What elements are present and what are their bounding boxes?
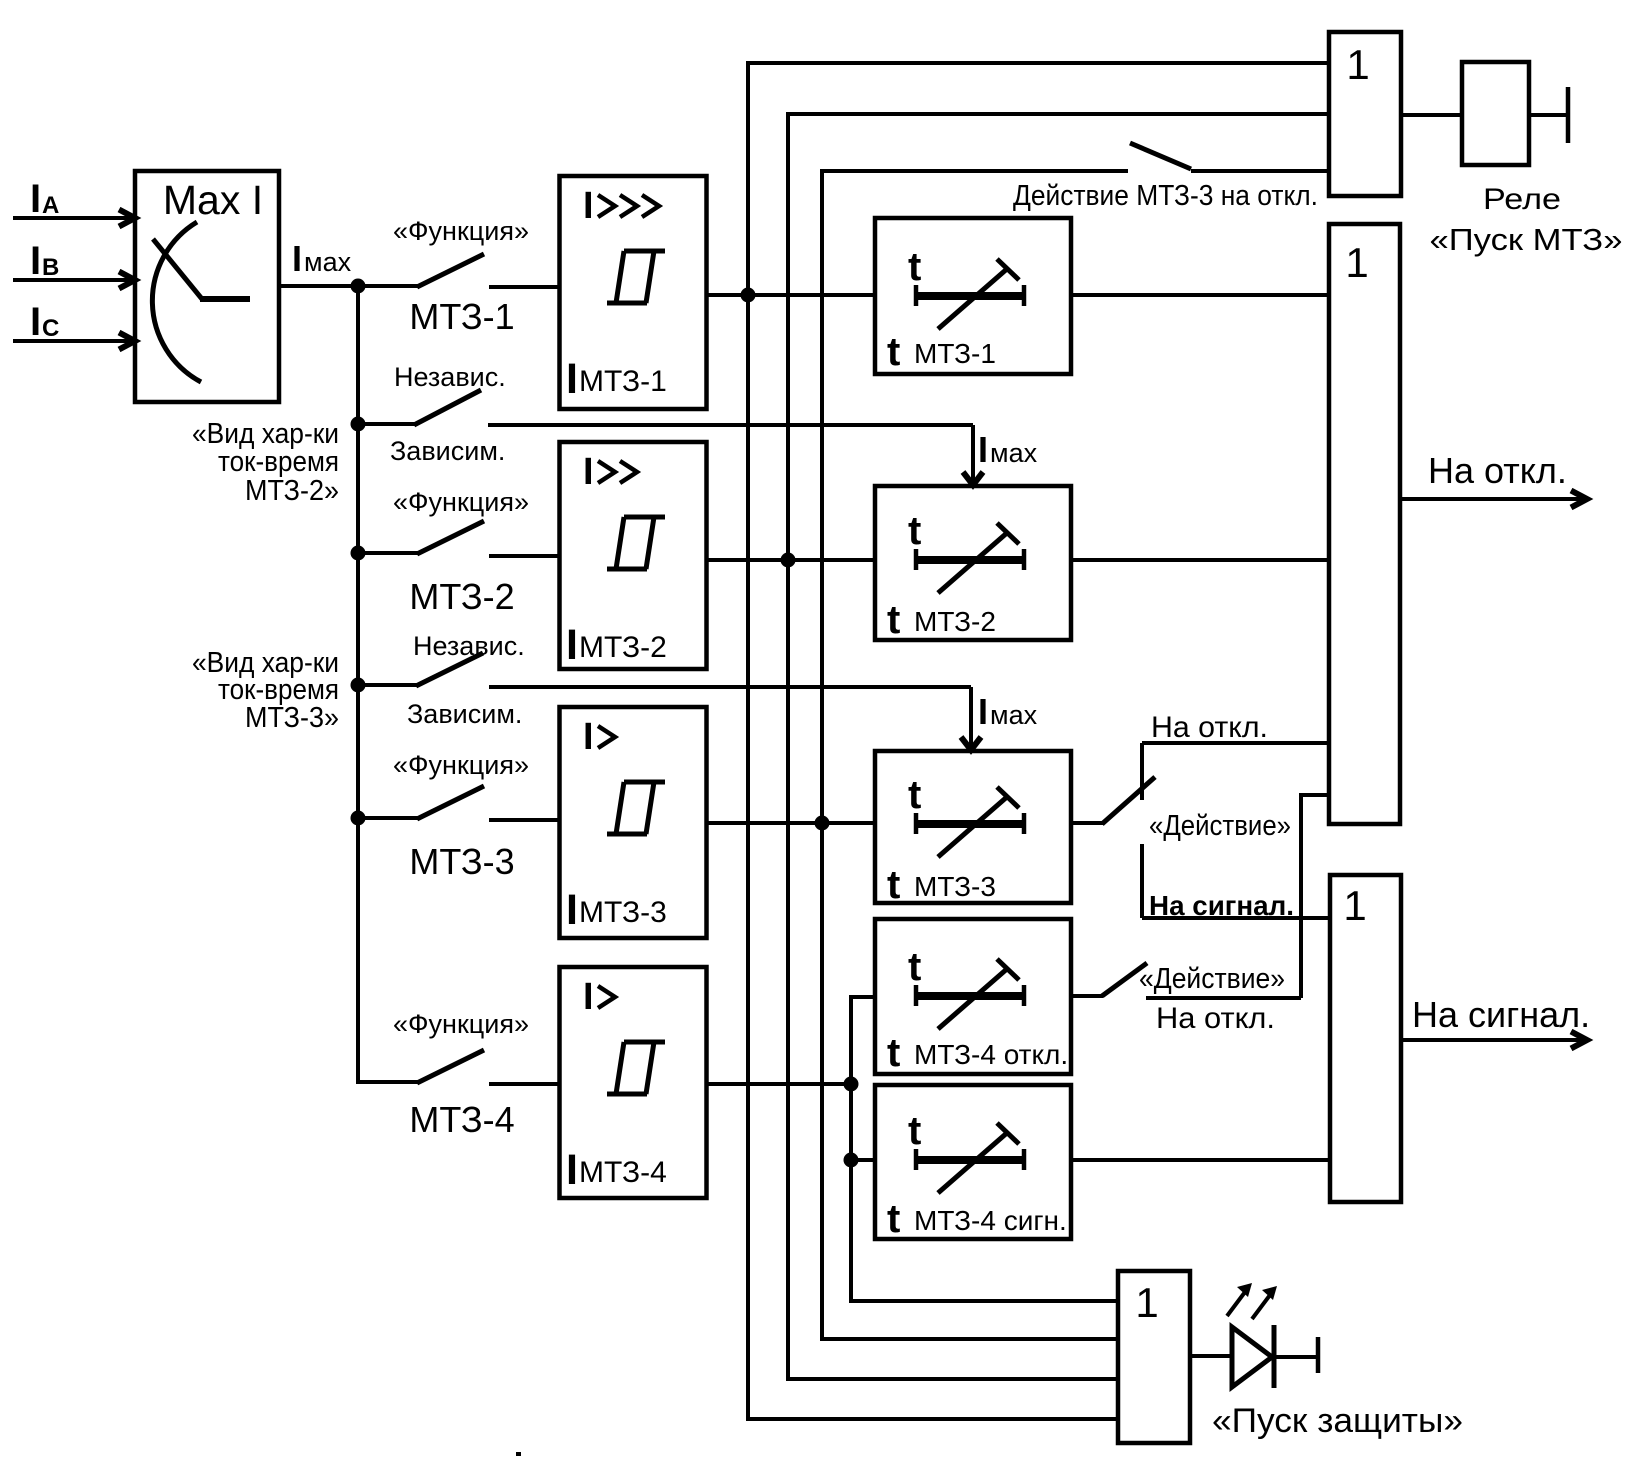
label Imax at t MTZ-3 input	[978, 691, 1038, 732]
wire net MTZ-3 start: comparator A3 to switch and OR4	[822, 171, 1128, 1339]
label Imax	[292, 238, 352, 279]
output arrow На сигнал.	[1401, 1032, 1587, 1049]
svg-text:I: I	[583, 976, 594, 1018]
svg-text:I: I	[978, 429, 988, 470]
svg-text:«Пуск защиты»: «Пуск защиты»	[1212, 1402, 1463, 1440]
svg-text:t: t	[908, 945, 921, 989]
speck bottom	[516, 1452, 521, 1456]
svg-text:мах: мах	[304, 247, 352, 277]
svg-text:I: I	[30, 239, 41, 283]
wire relay to terminal	[1529, 113, 1568, 117]
node N8 MTZ-3 row	[815, 816, 830, 831]
svg-text:На откл.: На откл.	[1151, 711, 1268, 744]
svg-text:I: I	[583, 716, 594, 758]
svg-text:МТЗ-3: МТЗ-3	[914, 871, 996, 902]
svg-text:Действие МТЗ-3 на откл.: Действие МТЗ-3 на откл.	[1013, 180, 1318, 212]
svg-text:I: I	[566, 355, 578, 403]
switch SA1 «Функция» МТЗ-1	[358, 254, 560, 287]
svg-text:t: t	[908, 245, 921, 289]
svg-text:«Функция»: «Функция»	[393, 487, 529, 517]
wire net MTZ-1 start: comparator A1 to OR1 and OR4	[748, 63, 1329, 1419]
label «Вид хар-ки ток-время МТЗ-2»	[192, 418, 339, 507]
node N2 bus char-switch MTZ-2	[351, 417, 366, 432]
wire MTZ-2 output row	[706, 558, 875, 562]
wire t MTZ-4 otkl to action switch	[1070, 994, 1103, 998]
node N10 MTZ-4 to t sign	[844, 1153, 859, 1168]
svg-text:Max I: Max I	[163, 177, 263, 223]
svg-text:I: I	[30, 177, 41, 221]
switch SA6 «Действие» МТЗ-3 (откл./сигнал.)	[1102, 743, 1155, 918]
switch SA7 «Действие» МТЗ-4	[1102, 963, 1301, 998]
svg-text:На сигнал.: На сигнал.	[1412, 994, 1590, 1035]
svg-text:t: t	[887, 1197, 900, 1241]
timer DT5 t МТЗ-4 сигн.	[875, 1085, 1071, 1241]
node N5 bus function MTZ-3	[351, 811, 366, 826]
svg-text:МТЗ-1: МТЗ-1	[579, 365, 667, 398]
wire t MTZ-2 to OR2	[1071, 558, 1329, 562]
wire t MTZ-1 to OR2	[1070, 293, 1329, 297]
label Реле «Пуск МТЗ»	[1430, 183, 1623, 257]
svg-text:На откл.: На откл.	[1428, 450, 1567, 491]
svg-text:МТЗ-3»: МТЗ-3»	[245, 702, 339, 734]
wire t MTZ-4 sign to OR3	[1070, 1158, 1330, 1162]
svg-text:На сигнал.: На сигнал.	[1149, 890, 1294, 921]
OR gate D4 (Пуск защиты)	[1118, 1271, 1190, 1443]
svg-text:C: C	[42, 315, 59, 342]
timer DT2 t МТЗ-2	[875, 486, 1071, 642]
svg-text:мах: мах	[990, 438, 1038, 468]
svg-text:«Функция»: «Функция»	[393, 750, 529, 780]
svg-text:t: t	[887, 598, 900, 642]
svg-text:МТЗ-4 откл.: МТЗ-4 откл.	[914, 1039, 1068, 1070]
comparator A4 МТЗ-4 threshold	[560, 967, 707, 1198]
svg-text:«Действие»: «Действие»	[1149, 810, 1291, 842]
switch SB2 «Вид хар-ки ток-время МТЗ-3»	[358, 653, 981, 750]
OR gate D2 (На откл.)	[1329, 224, 1400, 824]
wire net MTZ-4 start: to t MTZ-4 boxes and OR4	[851, 997, 1118, 1301]
input IA arrow	[13, 210, 135, 227]
wire На сигнал. from SA6 to OR3	[1142, 916, 1330, 920]
svg-text:I: I	[978, 691, 988, 732]
svg-text:МТЗ-3: МТЗ-3	[579, 896, 667, 929]
timer DT4 t МТЗ-4 откл.	[875, 919, 1071, 1075]
OR gate D3 (На сигнал.)	[1330, 875, 1401, 1202]
svg-text:t: t	[887, 330, 900, 374]
wire vertical Imax bus	[358, 286, 418, 1082]
svg-text:«Действие»: «Действие»	[1139, 963, 1285, 995]
svg-text:МТЗ-1: МТЗ-1	[409, 296, 514, 337]
timer DT3 t МТЗ-3	[875, 751, 1071, 907]
svg-text:t: t	[887, 1031, 900, 1075]
OR gate D1 (Пуск МТЗ)	[1329, 32, 1401, 196]
svg-text:I: I	[292, 238, 302, 279]
svg-text:«Функция»: «Функция»	[393, 1009, 529, 1039]
wire SA7 contact up to OR2	[1301, 795, 1329, 998]
wire MTZ-1 output row	[707, 293, 875, 297]
svg-text:МТЗ-1: МТЗ-1	[914, 338, 996, 369]
node N1 Imax bus top	[351, 279, 366, 294]
wire OR1 to relay	[1401, 113, 1462, 117]
svg-text:t: t	[887, 863, 900, 907]
terminal bar relay	[1566, 87, 1571, 143]
svg-text:t: t	[908, 509, 921, 553]
node N7 MTZ-2 row	[781, 553, 796, 568]
comparator A1 МТЗ-1 threshold	[560, 176, 707, 409]
wire OR4 to LED	[1190, 1354, 1232, 1358]
label Imax at t MTZ-2 input	[978, 429, 1038, 470]
svg-text:Зависим.: Зависим.	[407, 699, 522, 729]
node N4 bus char-switch MTZ-3	[351, 678, 366, 693]
output arrow На откл.	[1400, 491, 1587, 508]
svg-text:МТЗ-2: МТЗ-2	[409, 576, 514, 617]
svg-text:МТЗ-4: МТЗ-4	[579, 1156, 667, 1189]
node N3 bus function MTZ-2	[351, 546, 366, 561]
input IC arrow	[13, 333, 135, 350]
svg-text:МТЗ-4: МТЗ-4	[409, 1099, 514, 1140]
svg-text:мах: мах	[990, 700, 1038, 730]
LED emission arrows	[1227, 1283, 1277, 1319]
svg-text:t: t	[908, 1109, 921, 1153]
wire Imax from Max I to bus	[279, 284, 418, 288]
svg-text:МТЗ-2»: МТЗ-2»	[245, 475, 339, 507]
comparator A2 МТЗ-2 threshold	[560, 442, 707, 669]
svg-text:I: I	[583, 185, 594, 227]
svg-text:1: 1	[1346, 41, 1369, 88]
switch SA4 «Функция» МТЗ-4	[417, 1050, 560, 1084]
block U1 Max I (maximum current selector)	[135, 171, 279, 402]
terminal bar LED	[1316, 1337, 1321, 1373]
svg-text:МТЗ-4 сигн.: МТЗ-4 сигн.	[914, 1205, 1067, 1236]
svg-text:Реле: Реле	[1483, 183, 1561, 216]
svg-text:Независ.: Независ.	[394, 362, 506, 392]
label IC	[30, 300, 59, 344]
switch SA5 Действие МТЗ-3 на откл.	[1130, 143, 1329, 171]
node N9 MTZ-4 row	[844, 1077, 859, 1092]
relay K1 Пуск МТЗ	[1462, 62, 1529, 165]
wire LED to terminal	[1274, 1355, 1318, 1359]
input IB arrow	[13, 272, 135, 289]
svg-text:1: 1	[1345, 239, 1368, 286]
wire На откл. from SA6 to OR2	[1142, 741, 1329, 745]
wire t MTZ-3 to action switch	[1071, 821, 1103, 825]
svg-text:Независ.: Независ.	[413, 631, 525, 661]
wire MTZ-4 output row	[707, 1082, 851, 1086]
svg-text:I: I	[30, 300, 41, 344]
svg-text:1: 1	[1135, 1279, 1158, 1326]
switch SA3 «Функция» МТЗ-3	[358, 786, 560, 820]
svg-text:t: t	[908, 773, 921, 817]
svg-text:МТЗ-2: МТЗ-2	[914, 606, 996, 637]
svg-text:I: I	[566, 886, 578, 934]
svg-text:B: B	[42, 254, 59, 281]
svg-text:Зависим.: Зависим.	[390, 436, 505, 466]
svg-text:МТЗ-3: МТЗ-3	[409, 841, 514, 882]
svg-text:«Пуск МТЗ»: «Пуск МТЗ»	[1430, 222, 1623, 257]
svg-text:МТЗ-2: МТЗ-2	[579, 631, 667, 664]
label «Вид хар-ки ток-время МТЗ-3»	[192, 647, 339, 734]
svg-text:1: 1	[1343, 882, 1366, 929]
label IA	[30, 177, 59, 221]
svg-text:ток-время: ток-время	[218, 446, 339, 478]
node N6 MTZ-1 row	[741, 288, 756, 303]
svg-text:I: I	[566, 621, 578, 669]
svg-text:«Функция»: «Функция»	[393, 216, 529, 246]
label IB	[30, 239, 59, 283]
wire net MTZ-2 start: comparator A2 to OR1 and OR4	[788, 114, 1329, 1379]
timer DT1 t МТЗ-1	[875, 218, 1071, 374]
svg-text:I: I	[566, 1146, 578, 1194]
svg-text:I: I	[583, 451, 594, 493]
svg-text:На откл.: На откл.	[1156, 1002, 1275, 1035]
switch SB1 «Вид хар-ки ток-время МТЗ-2»	[358, 390, 983, 485]
switch SA2 «Функция» МТЗ-2	[358, 521, 560, 556]
LED VD1 «Пуск защиты»	[1232, 1325, 1274, 1388]
wire stub to t MTZ-4 sign	[851, 1158, 875, 1162]
comparator A3 МТЗ-3 threshold	[560, 707, 707, 938]
svg-text:A: A	[42, 192, 59, 219]
wire MTZ-3 output row	[706, 821, 875, 825]
